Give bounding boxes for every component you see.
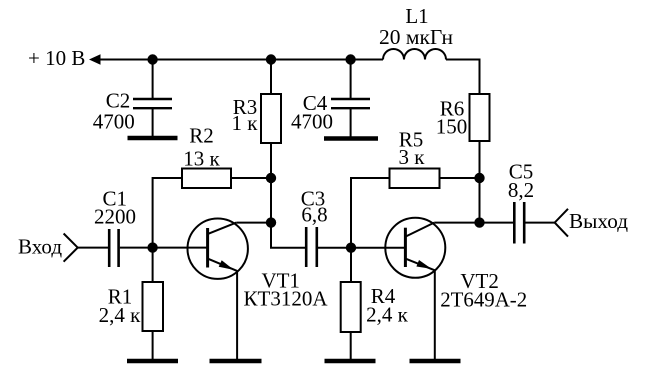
capacitor C2 xyxy=(93,60,172,139)
svg-text:Вход: Вход xyxy=(18,234,62,258)
svg-text:150: 150 xyxy=(436,115,468,139)
wire L1 to R6 xyxy=(446,60,480,95)
svg-text:2,4 к: 2,4 к xyxy=(366,303,409,327)
svg-text:2,4 к: 2,4 к xyxy=(99,303,142,327)
ground (C2) xyxy=(128,136,178,141)
ground (VT1 emitter) xyxy=(210,359,262,364)
capacitor C5 xyxy=(508,160,555,244)
ground (R1) xyxy=(127,359,178,364)
power rail arrowhead xyxy=(89,54,101,64)
resistor R1 xyxy=(99,248,163,361)
wire input to C1 xyxy=(78,247,108,249)
node rail-C4-L1 xyxy=(345,54,355,64)
wire top power rail xyxy=(99,59,383,61)
svg-text:20 мкГн: 20 мкГн xyxy=(379,25,453,49)
svg-text:Выход: Выход xyxy=(569,209,628,233)
transistor VT1 xyxy=(188,219,329,362)
svg-text:6,8: 6,8 xyxy=(301,203,327,227)
resistor R4 xyxy=(341,248,409,361)
node R2-R3 xyxy=(266,173,276,183)
svg-text:+ 10 В: + 10 В xyxy=(28,46,85,70)
capacitor C4 xyxy=(291,60,370,139)
wire C3 node to VT2 base xyxy=(351,247,404,249)
svg-text:2Т649А-2: 2Т649А-2 xyxy=(440,288,527,312)
resistor R3 xyxy=(232,60,281,144)
node VT2 base xyxy=(346,243,356,253)
node rail-R3 xyxy=(266,54,276,64)
wire R6 bottom to output node xyxy=(479,141,481,223)
svg-text:R2: R2 xyxy=(189,124,214,148)
node R5-R6 xyxy=(474,173,484,183)
ground (R4) xyxy=(325,359,376,364)
svg-text:КТ3120А: КТ3120А xyxy=(244,287,329,311)
capacitor C3 xyxy=(301,187,351,268)
node VT1 base / C1-R1-R2 xyxy=(147,242,157,252)
node rail-C2 xyxy=(147,54,157,64)
svg-text:2200: 2200 xyxy=(94,205,136,229)
capacitor C1 xyxy=(94,186,207,267)
svg-text:1 к: 1 к xyxy=(232,111,259,135)
resistor R5 xyxy=(351,128,480,248)
wire R3 bottom to C3 (collector node column) xyxy=(271,143,307,248)
svg-text:3 к: 3 к xyxy=(399,145,426,169)
svg-text:4700: 4700 xyxy=(93,110,135,134)
svg-text:13 к: 13 к xyxy=(183,147,220,171)
input connector chevron xyxy=(64,234,78,262)
transistor VT2 xyxy=(385,218,527,361)
ground (C4) xyxy=(324,136,378,141)
ground (VT2 emitter) xyxy=(410,359,461,364)
inductor L1 xyxy=(379,4,453,60)
wire output node to C5 xyxy=(480,222,514,224)
resistor R6 xyxy=(436,94,490,141)
svg-text:8,2: 8,2 xyxy=(508,178,534,202)
svg-text:4700: 4700 xyxy=(291,110,333,134)
output connector chevron xyxy=(555,209,568,237)
resistor R2 xyxy=(153,124,271,248)
node VT1 collector xyxy=(266,217,276,227)
node VT2 collector / output xyxy=(474,217,484,227)
